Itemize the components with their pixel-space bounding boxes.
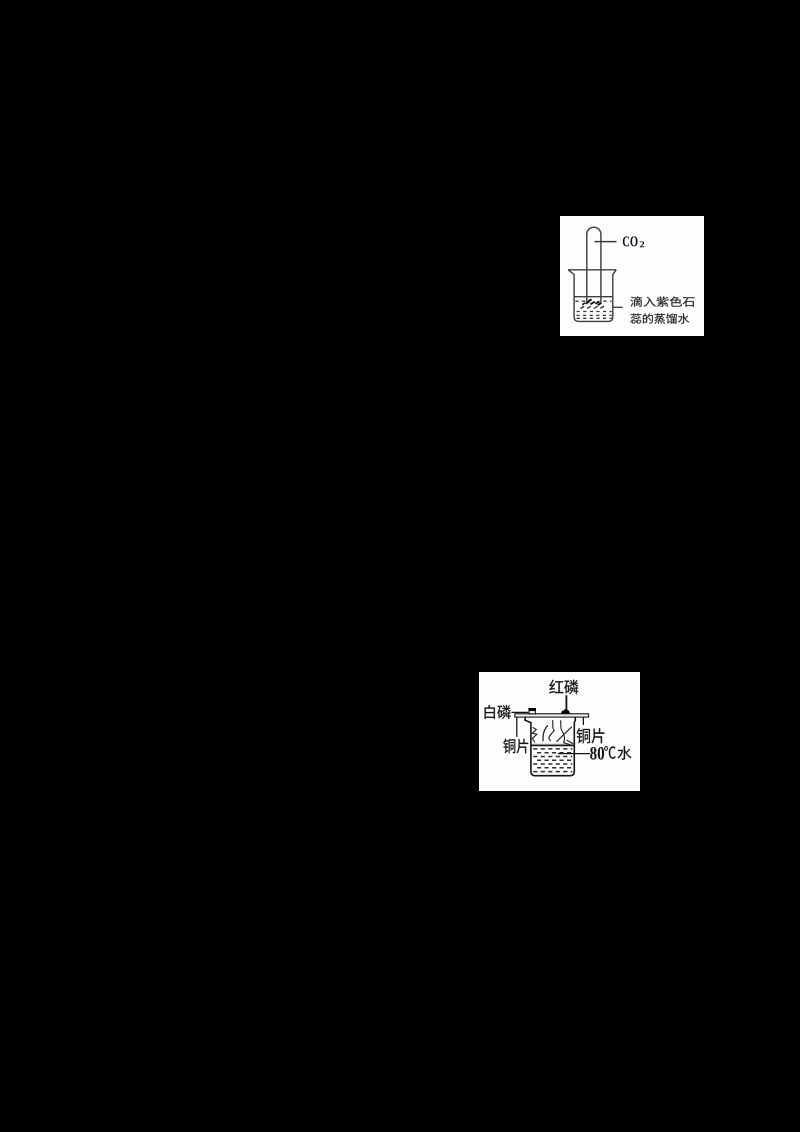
red phosphorus sample: [561, 709, 570, 714]
pointer 80C water: [558, 753, 590, 755]
figure 1 panel: CO2 tube in beaker of litmus distilled water: [560, 216, 704, 336]
pointer white phosphorus: [511, 711, 528, 713]
beaker rim: [568, 269, 616, 271]
fume squiggles: [532, 720, 573, 745]
dark bubbles at tube mouth: [582, 299, 601, 305]
beaker body: [568, 270, 616, 322]
pointer copper sheet right: [582, 717, 584, 725]
label line1 滴入紫色石: [630, 296, 694, 306]
label line2 蕊的蒸馏水: [630, 313, 689, 323]
diagonal ripple strokes: [580, 306, 604, 309]
white phosphorus sample: [528, 708, 536, 714]
label CO2: [623, 236, 644, 247]
label 80℃水 (80C water): [590, 746, 631, 760]
liquid dash rows: [575, 301, 612, 318]
figure 2 panel: white/red phosphorus on copper sheet over 80C water: [479, 672, 640, 791]
label 红磷 (red phosphorus): [549, 680, 578, 694]
pointer red phosphorus: [565, 695, 567, 710]
label 铜片 left (copper sheet): [503, 739, 528, 754]
copper sheet plate: [515, 714, 589, 717]
test tube (inverted): [587, 227, 601, 302]
water surface: [532, 743, 574, 745]
pointer to liquid label: [613, 306, 623, 308]
beaker (hot water): [525, 717, 575, 775]
water dash rows: [533, 749, 572, 772]
label 铜片 right (copper sheet): [577, 728, 605, 743]
label 白磷 (white phosphorus): [485, 705, 511, 719]
liquid surface: [574, 296, 613, 298]
CO2 pointer line: [595, 241, 617, 243]
pointer copper sheet left: [516, 717, 518, 737]
